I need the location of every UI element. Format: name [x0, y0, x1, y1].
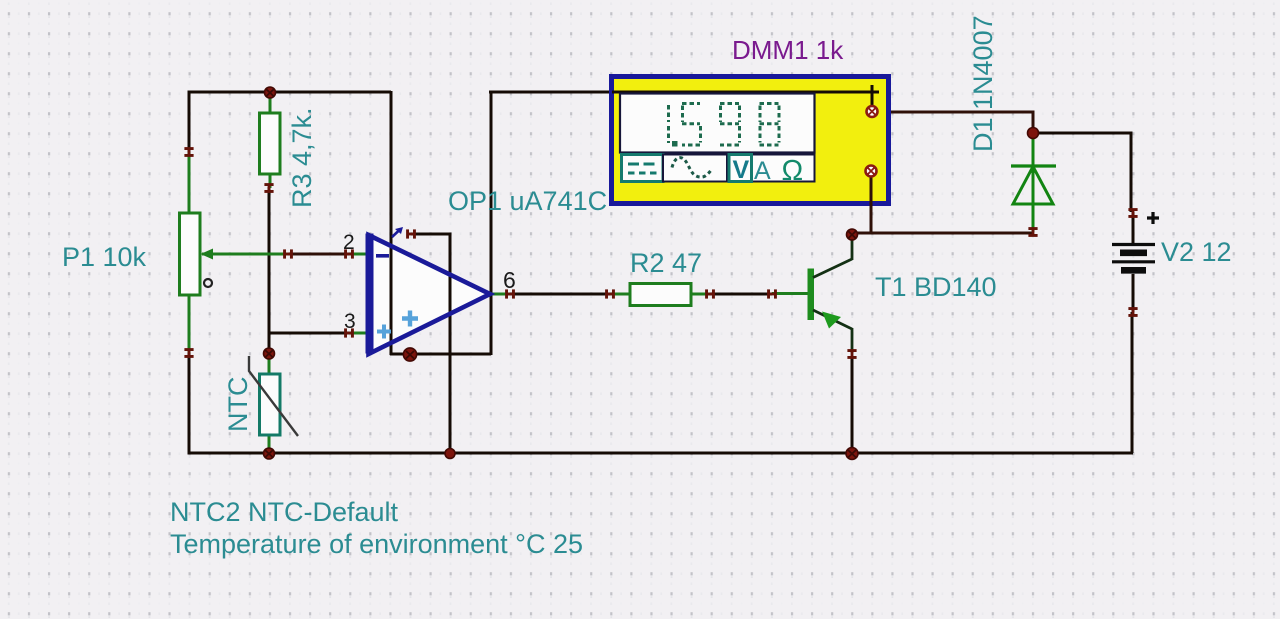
- svg-text:D1 1N4007: D1 1N4007: [968, 15, 998, 152]
- wire through op-amp left: [390, 234, 393, 354]
- wire R3 to NTC vertical: [268, 187, 271, 353]
- resistor R3: [260, 93, 281, 188]
- wire DMM minus stub: [870, 176, 873, 206]
- svg-text:NTC2 NTC-Default: NTC2 NTC-Default: [170, 497, 399, 527]
- wire pin3: [270, 332, 349, 335]
- wire diode junction to battery top: [1033, 133, 1131, 212]
- wire inside DMM to plus terminal: [612, 91, 871, 94]
- wire through op-amp power: [449, 234, 452, 354]
- resistor R2: [610, 284, 710, 306]
- op-amp OP1: [366, 227, 491, 354]
- battery V2: [1112, 212, 1159, 312]
- svg-text:NTC: NTC: [223, 377, 253, 433]
- dot crosses: [265, 89, 856, 458]
- wire battery bottom to ground rail: [1131, 312, 1134, 453]
- wire bottom rail: [189, 352, 1133, 453]
- svg-text:T1 BD140: T1 BD140: [875, 272, 997, 302]
- wire pin2: [288, 253, 349, 256]
- svg-text:DMM1 1k: DMM1 1k: [732, 35, 844, 65]
- op-amp OP1 leads: [349, 254, 510, 333]
- svg-text:Ω: Ω: [782, 155, 804, 187]
- wire op-amp output: [510, 293, 610, 296]
- svg-text:R2 47: R2 47: [630, 248, 702, 278]
- wire collector rail: [852, 232, 1033, 235]
- diode D1: [1011, 135, 1056, 232]
- transistor T1: [772, 236, 852, 353]
- thermistor NTC2: [249, 353, 298, 453]
- wire op-amp top power: [411, 234, 450, 453]
- svg-text:A: A: [754, 157, 771, 185]
- svg-text:Temperature of environment °C: Temperature of environment °C 25: [170, 529, 583, 559]
- wire DMM plus to diode junction: [877, 112, 1033, 133]
- wire op-amp right vertical: [490, 92, 493, 355]
- svg-text:P1 10k: P1 10k: [62, 242, 147, 272]
- potentiometer P1: [180, 152, 289, 353]
- wire DMM minus drop: [870, 176, 873, 233]
- wire output rail to DMM: [489, 91, 871, 94]
- wire emitter drop: [851, 356, 854, 453]
- wire op-amp loop bottom: [390, 353, 491, 356]
- svg-text:6: 6: [503, 267, 516, 293]
- wire top-left rail: [189, 92, 391, 153]
- svg-text:V2 12: V2 12: [1161, 237, 1232, 267]
- pin cross marks: [184, 147, 1137, 359]
- wire R2 to base: [710, 293, 772, 296]
- svg-text:OP1 uA741C: OP1 uA741C: [448, 186, 607, 216]
- svg-text:V: V: [733, 156, 750, 184]
- DMM1 multimeter: [612, 77, 889, 207]
- svg-text:R3 4,7k.: R3 4,7k.: [287, 107, 317, 208]
- wire op-amp left vertical: [390, 91, 393, 355]
